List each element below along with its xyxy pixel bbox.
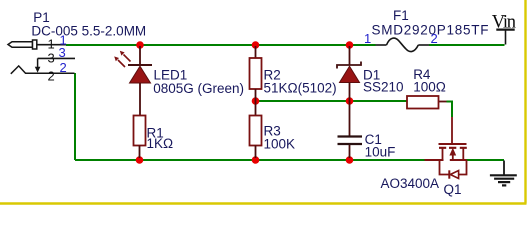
wire R4 to gate	[439, 101, 448, 103]
svg-text:0805G (Green): 0805G (Green)	[153, 81, 244, 96]
Q1 gate pin	[451, 117, 453, 144]
fuse F1	[364, 8, 489, 52]
svg-text:2: 2	[431, 31, 438, 46]
svg-text:100Ω: 100Ω	[413, 80, 446, 95]
Q1 gate bar	[439, 143, 467, 145]
connector P1	[8, 10, 146, 83]
ground	[490, 161, 517, 186]
transistor Q1	[381, 117, 467, 197]
wire source to ground	[467, 159, 505, 161]
Q1 source stub	[462, 148, 464, 160]
P1 barrel pin 1	[8, 42, 33, 48]
resistor R3	[250, 101, 296, 158]
resistor R2	[250, 46, 337, 101]
resistor R4	[407, 67, 446, 109]
diode D1	[337, 46, 404, 101]
svg-text:2: 2	[48, 69, 55, 84]
svg-text:Vin: Vin	[492, 13, 516, 33]
wire middle rail	[256, 100, 407, 102]
junction bottom R3	[252, 156, 260, 164]
Q1 body diode loop	[440, 160, 467, 175]
power port Vin	[492, 13, 516, 45]
Q1 body diode	[448, 170, 450, 178]
svg-text:AO3400A: AO3400A	[381, 176, 440, 191]
P1 pin 3 line and switch arrow	[38, 57, 75, 59]
svg-text:2: 2	[60, 60, 67, 75]
LED1 emission arrows	[124, 55, 131, 62]
junction bottom C1	[346, 156, 354, 164]
svg-text:51KΩ(5102): 51KΩ(5102)	[264, 81, 337, 96]
junction top D1	[346, 41, 354, 49]
Q1 source line	[450, 159, 467, 161]
LED LED1	[114, 46, 244, 116]
wire pin2 drop	[74, 73, 76, 160]
svg-text:1KΩ: 1KΩ	[147, 136, 174, 151]
svg-text:F1: F1	[393, 8, 409, 23]
Q1 channel segments	[439, 147, 467, 149]
wire top rail	[66, 44, 505, 46]
junction mid R2R3	[252, 97, 260, 105]
svg-text:Q1: Q1	[444, 182, 462, 197]
svg-text:SS210: SS210	[363, 80, 404, 95]
svg-text:1: 1	[364, 31, 371, 46]
P1 pin 2 chevron contact	[11, 66, 75, 74]
svg-text:1: 1	[48, 36, 55, 51]
Q1 drain stub	[442, 148, 444, 160]
junction bottom R1	[136, 156, 144, 164]
Q1 body stub and arrow	[452, 155, 454, 161]
capacitor C1	[338, 101, 396, 159]
svg-text:10uF: 10uF	[365, 144, 396, 159]
wire bottom rail	[75, 159, 425, 161]
svg-text:100K: 100K	[264, 137, 296, 152]
junction mid D1C1	[346, 97, 354, 105]
junction top LED	[136, 41, 144, 49]
svg-text:3: 3	[48, 51, 55, 66]
junction top R2	[252, 41, 260, 49]
svg-text:3: 3	[59, 45, 66, 60]
Q1 drain line	[425, 159, 444, 161]
resistor R1	[134, 116, 174, 159]
